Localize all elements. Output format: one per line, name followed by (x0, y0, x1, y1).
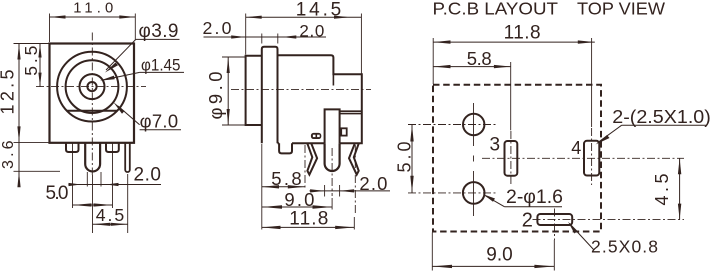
dim 5.0 pcb (394, 125, 414, 193)
dim 12.5 (0, 44, 60, 188)
leader phi3.9 (105, 21, 180, 72)
extension line center pin left edge (86, 172, 88, 187)
front flange plate side (262, 47, 278, 144)
svg-text:12.5: 12.5 (0, 70, 18, 115)
svg-text:4.5: 4.5 (652, 174, 672, 206)
svg-text:11.0: 11.0 (73, 1, 113, 17)
svg-text:P.C.B LAYOUT: P.C.B LAYOUT (433, 0, 559, 19)
dim 3.6 (0, 140, 17, 169)
main body side outline (278, 55, 362, 143)
dim 2.0 pin side (310, 173, 391, 197)
svg-text:2.0: 2.0 (359, 173, 387, 194)
svg-text:5.0: 5.0 (46, 183, 69, 204)
inner step line (332, 74, 334, 85)
svg-text:4.5: 4.5 (96, 205, 125, 225)
slot 2 (537, 214, 572, 225)
claw2 centerline (354, 145, 356, 215)
stub pin side (279, 143, 292, 153)
svg-text:TOP VIEW: TOP VIEW (577, 0, 665, 19)
dim 5.8 pcb (434, 48, 511, 130)
dim 11.0 (50, 1, 136, 43)
dim 9.0 pcb (432, 233, 554, 271)
jack body front outline (50, 44, 135, 143)
svg-text:2-(2.5X1.0): 2-(2.5X1.0) (612, 106, 710, 127)
leader 2.5X0.8 (568, 222, 658, 257)
dim 5.0 (46, 183, 113, 206)
right claw pin side (349, 143, 359, 174)
centerline vertical front (91, 33, 93, 176)
slot 4 (584, 141, 599, 176)
svg-text:5.0: 5.0 (394, 142, 414, 173)
svg-text:9.0: 9.0 (284, 189, 314, 210)
extension line center pin (92, 175, 94, 233)
flange left extension (261, 144, 263, 230)
claw1 centerline (304, 145, 306, 189)
dim 2.0 pin width front (68, 165, 161, 187)
side pin front (2.0) (125, 143, 130, 172)
dim phi9.0 (205, 57, 248, 125)
pin centerline side (331, 148, 333, 196)
dim 11.8 side (262, 209, 354, 230)
terminal detail oval (311, 133, 321, 139)
svg-text:2-φ1.6: 2-φ1.6 (506, 187, 563, 208)
left stub pin front (66, 143, 79, 152)
svg-text:2.0: 2.0 (299, 21, 324, 40)
slot 3 (505, 141, 518, 176)
dim 5.5 (21, 44, 49, 87)
svg-text:9.0: 9.0 (486, 244, 513, 265)
center pin side (325, 109, 340, 143)
leader 2-phi1.6 (483, 187, 563, 208)
svg-text:11.8: 11.8 (289, 209, 328, 230)
slots horizontal centerline (482, 157, 684, 159)
svg-text:3.6: 3.6 (0, 140, 17, 169)
svg-text:5.8: 5.8 (271, 168, 302, 189)
chord flat in outer circle (67, 110, 118, 112)
inner circle phi3.9 (80, 74, 105, 99)
dim 14.5 (246, 0, 362, 74)
hole 1 (463, 114, 484, 135)
dim 11.8 pcb (433, 23, 595, 128)
svg-text:φ1.45: φ1.45 (141, 56, 181, 75)
extension line side pin (127, 174, 129, 233)
hole 2 (463, 182, 485, 204)
dim 2.0 lip (203, 18, 327, 44)
leader 2-(2.5X1.0) (596, 106, 710, 144)
svg-text:5.8: 5.8 (467, 48, 492, 69)
outer barrel circle phi7.0 (57, 52, 127, 122)
svg-text:14.5: 14.5 (296, 0, 342, 21)
middle circle (66, 60, 119, 113)
centerline horizontal front (36, 86, 146, 88)
dim 9.0 side (262, 189, 333, 210)
svg-text:2.0: 2.0 (134, 165, 162, 186)
barrel centerline side (231, 89, 371, 91)
rear block top double lines (340, 110, 362, 112)
svg-text:11.8: 11.8 (504, 23, 541, 44)
dim 4.5 (93, 205, 129, 226)
svg-text:2.0: 2.0 (203, 18, 232, 38)
right stub pin front (106, 143, 119, 152)
svg-text:3: 3 (490, 135, 501, 156)
leader phi7.0 (113, 102, 181, 131)
center pin front (85, 143, 100, 172)
barrel side outline (246, 56, 262, 125)
svg-text:2.5X0.8: 2.5X0.8 (591, 236, 658, 256)
svg-text:2: 2 (522, 210, 533, 232)
PCB outline dashed (433, 85, 601, 232)
latch window detail (341, 128, 347, 135)
svg-text:φ9.0: φ9.0 (205, 72, 226, 120)
extension line left stub center (72, 143, 74, 208)
svg-text:5.5: 5.5 (21, 46, 41, 76)
extension line right stub center (112, 143, 114, 208)
svg-text:φ7.0: φ7.0 (140, 110, 179, 131)
extension line center pin right edge (100, 172, 102, 187)
center pin hole phi1.45 (87, 82, 96, 91)
left claw pin side (307, 143, 317, 174)
dim 4.5 pcb (652, 158, 682, 219)
dim 5.8 side (262, 168, 305, 189)
svg-text:4: 4 (571, 138, 581, 158)
leader phi1.45 (100, 56, 184, 81)
